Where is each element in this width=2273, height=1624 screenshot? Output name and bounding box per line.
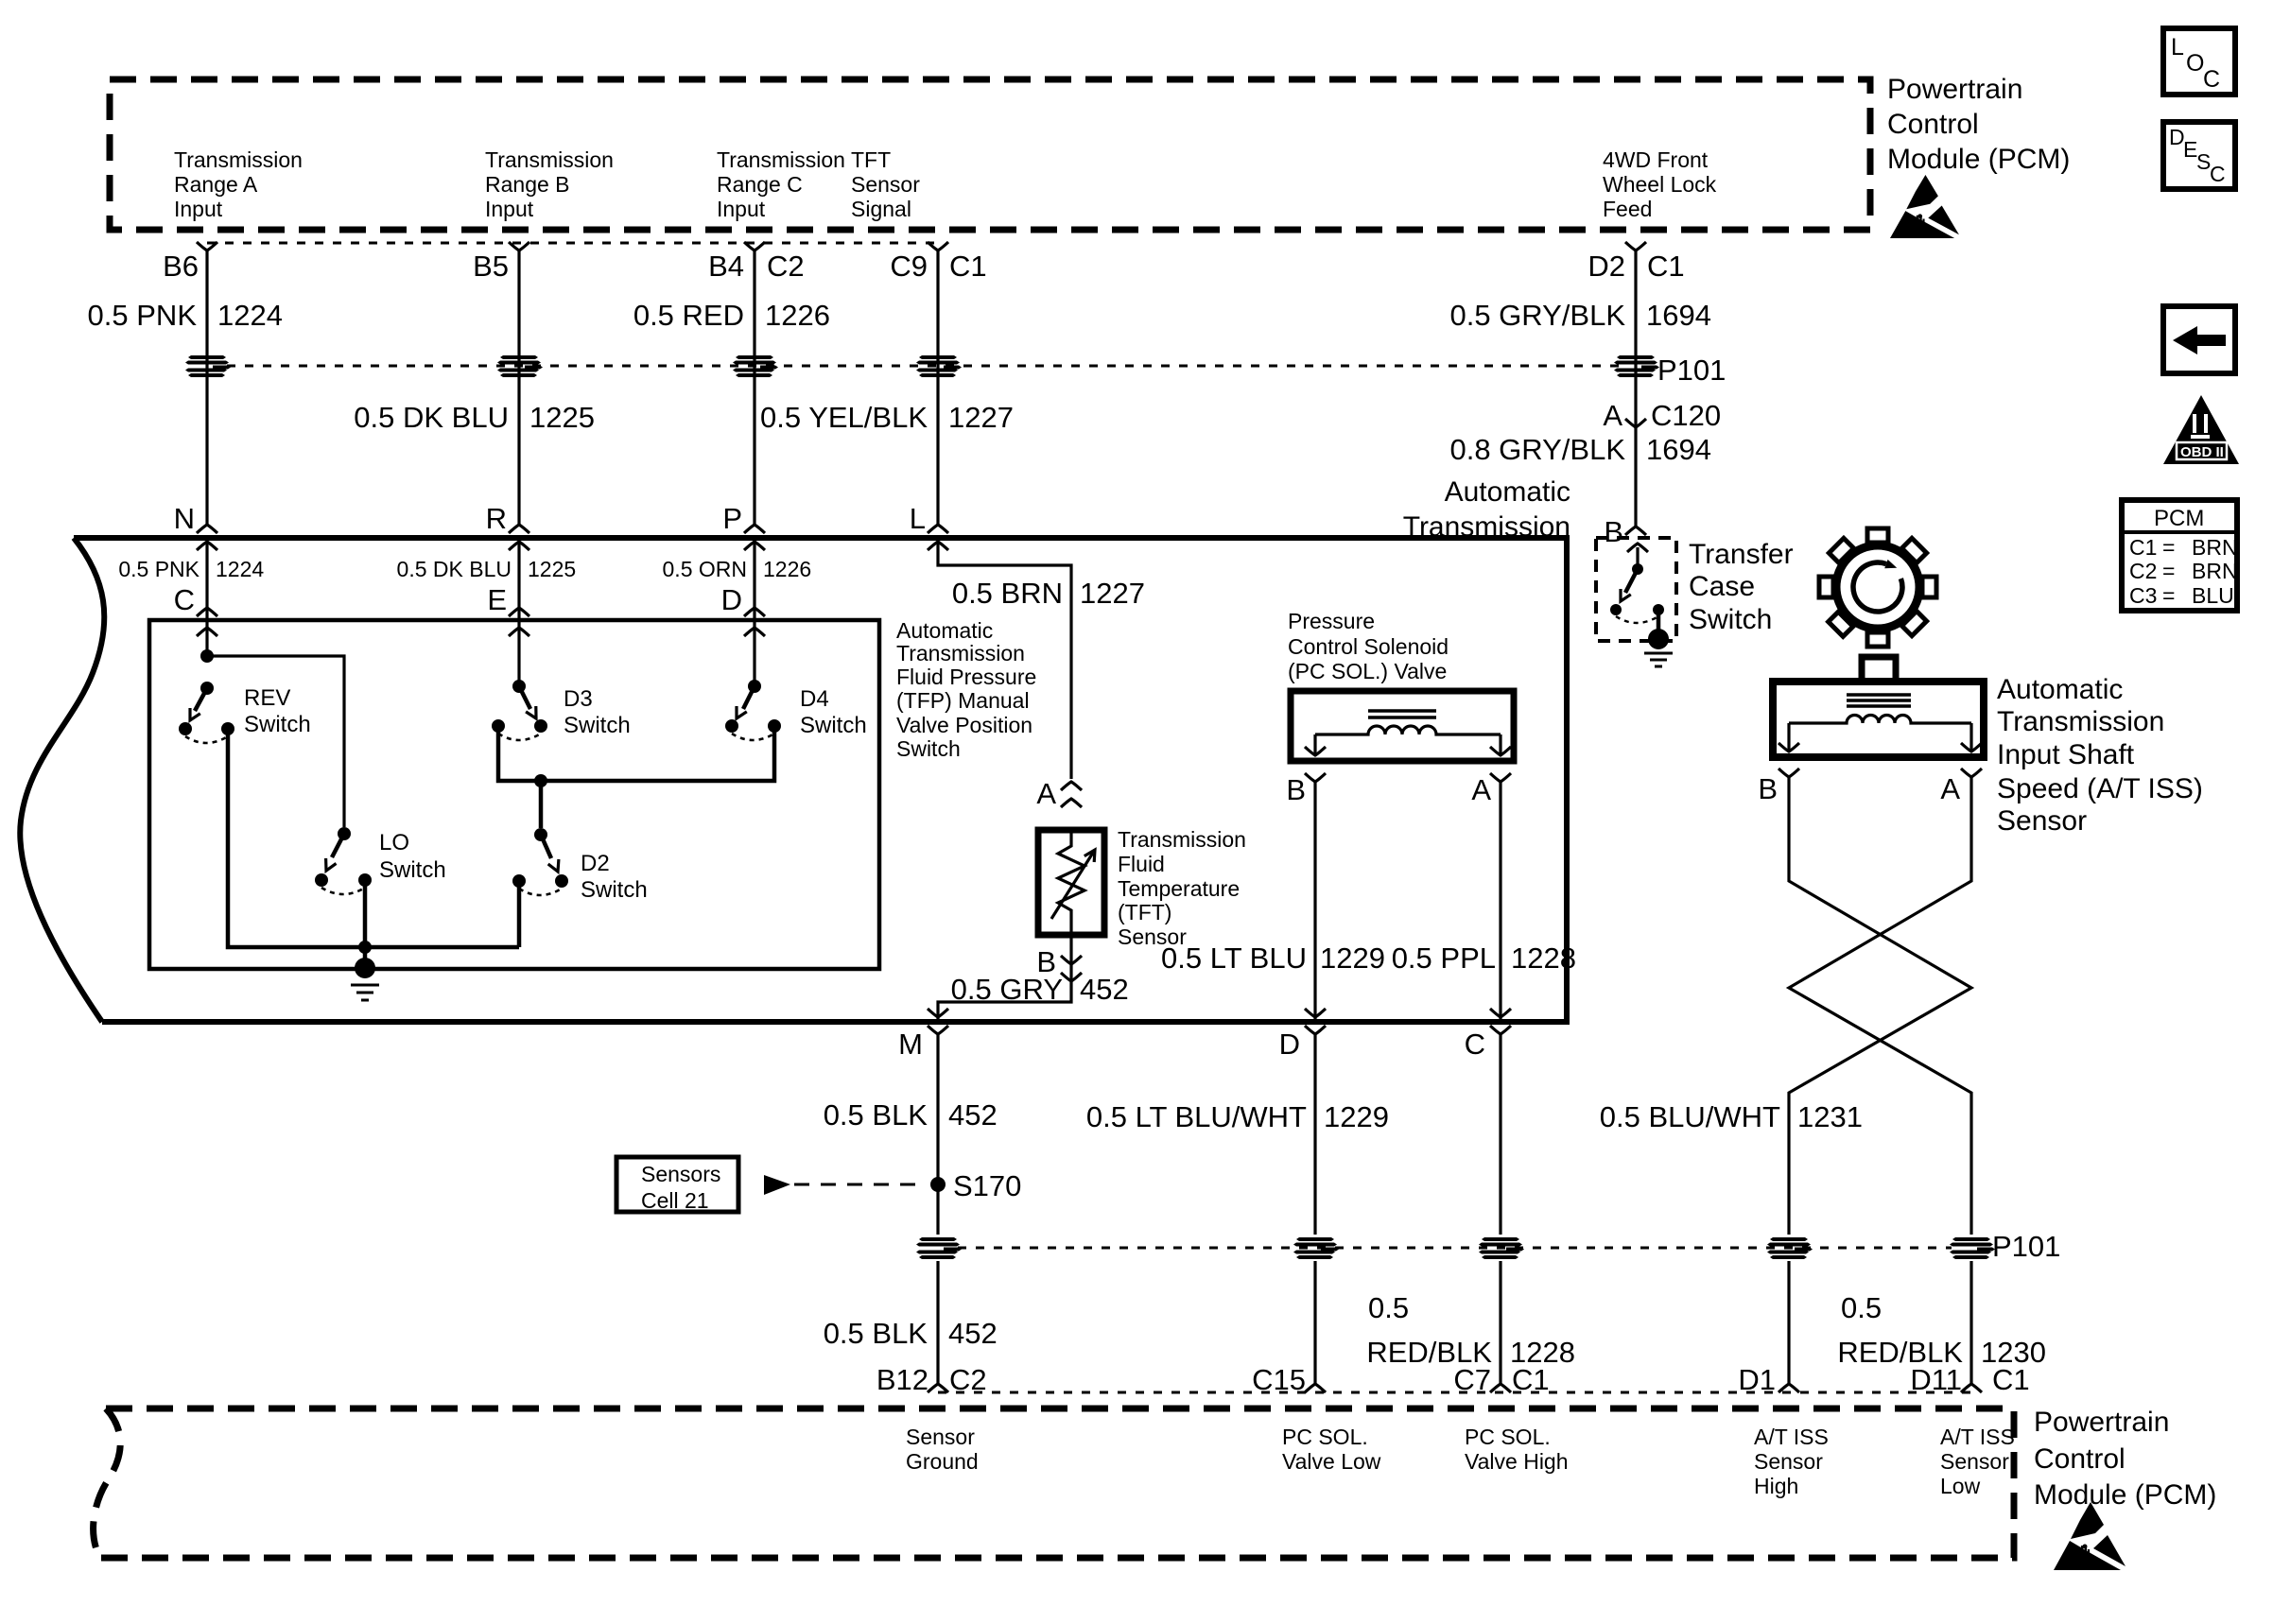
- wire label 0.5 BLK 452 upper: [824, 1098, 998, 1132]
- svg-text:B6: B6: [163, 250, 199, 283]
- pin B4/C2 fork: [744, 242, 765, 251]
- harness dashed line through in-line connectors P101: [227, 365, 1619, 368]
- svg-text:C: C: [2203, 66, 2220, 93]
- svg-text:Low: Low: [1940, 1474, 1981, 1498]
- svg-text:0.5 LT BLU: 0.5 LT BLU: [1161, 942, 1307, 975]
- svg-text:C1: C1: [1647, 250, 1685, 283]
- svg-text:1225: 1225: [528, 557, 576, 581]
- pin L fork and label: [910, 502, 948, 535]
- svg-text:452: 452: [948, 1317, 998, 1350]
- pin D2/C1 fork: [1625, 242, 1646, 251]
- connector label P101 bottom: [1992, 1230, 2060, 1263]
- in-line connector on wire B6: [185, 355, 231, 377]
- svg-text:C9: C9: [890, 250, 928, 283]
- wire N inside to C: [197, 538, 217, 620]
- label Transfer Case Switch: [1689, 539, 1794, 635]
- svg-text:B5: B5: [473, 250, 509, 283]
- pin D2 C1 labels: [1588, 250, 1684, 283]
- pin C9/C1 fork: [928, 242, 948, 251]
- svg-text:4WD Front: 4WD Front: [1603, 147, 1709, 172]
- wire B6 to connector P101: [205, 251, 208, 525]
- wire D to C15: [1313, 1034, 1316, 1384]
- svg-text:Signal: Signal: [851, 197, 911, 221]
- ground at TFP switch: [351, 958, 379, 1000]
- svg-text:A/T ISS: A/T ISS: [1940, 1425, 2015, 1449]
- svg-text:Temperature: Temperature: [1118, 876, 1240, 901]
- connector label P101: [1657, 354, 1726, 387]
- svg-text:0.5 PNK: 0.5 PNK: [118, 557, 200, 581]
- svg-text:Speed (A/T ISS): Speed (A/T ISS): [1997, 773, 2203, 804]
- svg-text:452: 452: [1080, 973, 1129, 1006]
- pin D11/C1 fork and label: [1910, 1363, 2029, 1396]
- svg-text:Range C: Range C: [717, 172, 803, 197]
- wire D entry into TFP switch: [744, 620, 765, 686]
- svg-text:C1: C1: [2129, 535, 2157, 560]
- svg-text:1226: 1226: [763, 557, 811, 581]
- pin B transfer case fork and label: [1604, 515, 1646, 548]
- svg-text:L: L: [2171, 34, 2184, 60]
- svg-text:0.5 YEL/BLK: 0.5 YEL/BLK: [760, 401, 928, 434]
- svg-text:1694: 1694: [1646, 433, 1711, 466]
- label PC SOL. Valve High: [1465, 1425, 1569, 1474]
- svg-text:Range A: Range A: [174, 172, 258, 197]
- in-line connector on wire D: [1293, 1237, 1339, 1259]
- svg-text:1229: 1229: [1324, 1100, 1389, 1133]
- wire C9 down: [936, 251, 939, 525]
- svg-text:0.5: 0.5: [1368, 1291, 1409, 1324]
- svg-text:Switch: Switch: [564, 713, 631, 738]
- svg-text:Transmission: Transmission: [174, 147, 303, 172]
- svg-text:D4: D4: [800, 686, 829, 712]
- svg-text:N: N: [174, 502, 195, 535]
- svg-text:OBD II: OBD II: [2180, 444, 2224, 460]
- exit pin C of AT box: [1465, 1026, 1511, 1061]
- svg-text:(TFT): (TFT): [1118, 900, 1171, 924]
- twisted pair crossover wires: [1789, 777, 1971, 1384]
- svg-text:Valve Low: Valve Low: [1282, 1449, 1381, 1474]
- svg-text:B: B: [1286, 773, 1306, 806]
- wire D3 left contact to D2 bus: [498, 726, 774, 781]
- in-line connector on ISS low wire with P101 label: [1950, 1237, 1995, 1259]
- svg-text:Sensor: Sensor: [1754, 1449, 1823, 1474]
- svg-text:=: =: [2162, 583, 2175, 608]
- svg-text:S170: S170: [953, 1169, 1021, 1202]
- DESC legend box: [2163, 122, 2235, 189]
- svg-text:0.5 BLU/WHT: 0.5 BLU/WHT: [1600, 1100, 1780, 1133]
- svg-text:M: M: [898, 1028, 923, 1061]
- svg-text:REV: REV: [244, 685, 290, 711]
- svg-text:Transmission: Transmission: [1997, 706, 2164, 737]
- wire LO right contact to ground junction: [363, 880, 368, 947]
- PCM top module box (Powertrain Control Module): [110, 79, 1870, 230]
- in-line connector on wire B4: [733, 355, 778, 377]
- wire label 0.5 GRY/BLK 1694: [1449, 299, 1711, 332]
- ESD symbol top: [1890, 175, 1959, 238]
- svg-text:Range B: Range B: [485, 172, 570, 197]
- svg-text:R: R: [486, 502, 507, 535]
- pin C fork and label: [174, 583, 217, 616]
- label: Transmission Range B Input: [485, 147, 614, 221]
- svg-text:Module (PCM): Module (PCM): [2034, 1479, 2216, 1511]
- D2 switch: [512, 828, 568, 895]
- svg-text:PCM: PCM: [2154, 506, 2204, 531]
- svg-text:BLU: BLU: [2192, 583, 2234, 608]
- svg-text:C3: C3: [2129, 583, 2157, 608]
- pin E fork and label: [487, 583, 529, 616]
- wire label 0.5 DK BLU 1225: [354, 401, 595, 434]
- svg-text:D2: D2: [581, 851, 610, 876]
- svg-text:C2: C2: [767, 250, 805, 283]
- svg-text:0.5 GRY/BLK: 0.5 GRY/BLK: [1449, 299, 1625, 332]
- svg-text:Input: Input: [717, 197, 766, 221]
- callout arrow to S170: [764, 1175, 925, 1195]
- pin C15 fork and label: [1252, 1363, 1326, 1396]
- wire label 0.5 ORN 1226 inside: [663, 557, 812, 581]
- LO switch: [315, 827, 372, 894]
- svg-text:Automatic: Automatic: [1445, 476, 1570, 508]
- D3 switch: [492, 680, 547, 740]
- back arrow legend box: [2163, 306, 2235, 373]
- svg-text:Transmission: Transmission: [1118, 827, 1246, 852]
- svg-text:A: A: [1940, 772, 1960, 805]
- svg-text:Switch: Switch: [581, 877, 648, 903]
- pin P fork and label: [722, 502, 765, 535]
- svg-text:0.5 BLK: 0.5 BLK: [824, 1317, 928, 1350]
- svg-text:Feed: Feed: [1603, 197, 1652, 221]
- label Automatic Transmission Fluid Pressure (TFP) Manual Valve Position Switch: [896, 618, 1036, 761]
- transfer case switch internals: [1610, 544, 1664, 631]
- connector C120 arrow on 4WD wire: [1603, 399, 1721, 432]
- wire junction to D2 pivot: [539, 781, 544, 828]
- svg-text:P101: P101: [1657, 354, 1726, 387]
- svg-text:LO: LO: [379, 830, 409, 855]
- pin B of TFT sensor (double arrow): [1036, 945, 1082, 981]
- wire label 0.5 PNK 1224: [88, 299, 283, 332]
- label LO Switch: [379, 830, 446, 883]
- label Transmission Fluid Temperature (TFT) Sensor: [1118, 827, 1246, 949]
- wire R inside to E: [509, 538, 529, 620]
- wire label 0.5 DK BLU 1225 inside: [397, 557, 577, 581]
- wire D2 down: [1634, 251, 1637, 527]
- Automatic Transmission component box with wavy left edge: [20, 538, 1567, 1022]
- pin B6 label: [163, 250, 199, 283]
- svg-text:L: L: [910, 502, 926, 535]
- svg-text:C: C: [1465, 1028, 1485, 1061]
- A/T ISS sensor connector nub: [1862, 657, 1896, 683]
- D4 switch: [725, 680, 781, 740]
- TFT sensor box: [1038, 830, 1104, 935]
- wire label 0.5 PNK 1224 inside: [118, 557, 264, 581]
- svg-text:Sensor: Sensor: [851, 172, 920, 197]
- node: junction C to REV feed: [200, 649, 214, 663]
- svg-text:BRN: BRN: [2192, 535, 2238, 560]
- svg-text:Input: Input: [485, 197, 534, 221]
- svg-text:Transmission: Transmission: [896, 641, 1025, 665]
- svg-text:Sensor: Sensor: [1940, 1449, 2009, 1474]
- node: junction on D2 bus: [534, 774, 547, 787]
- wire junction to LO switch feed: [207, 656, 344, 827]
- svg-text:Control: Control: [2034, 1443, 2126, 1475]
- ISS pickup coil core: [1847, 695, 1911, 706]
- ground at transfer case switch: [1644, 629, 1673, 666]
- A/T ISS sensor box: [1773, 682, 1984, 757]
- label Pressure Control Solenoid (PC SOL.) Valve: [1288, 609, 1449, 683]
- wire C to C7: [1499, 1034, 1501, 1384]
- pin D fork and label: [721, 583, 765, 616]
- LOC legend box: [2163, 28, 2235, 95]
- wire label 0.5 BLK 452 lower: [824, 1317, 998, 1350]
- wire label 0.5 LT BLU 1229: [1161, 942, 1385, 975]
- svg-text:C: C: [174, 583, 195, 616]
- ISS pickup coil: [1778, 716, 1982, 752]
- svg-text:Fluid Pressure: Fluid Pressure: [896, 665, 1036, 689]
- PC SOL solenoid core: [1368, 711, 1436, 717]
- wire B4 down: [753, 251, 755, 525]
- pin C7/C1 fork and label: [1453, 1363, 1549, 1396]
- node S170: [930, 1169, 1021, 1202]
- svg-text:Switch: Switch: [244, 712, 311, 737]
- exit pin M of AT box: [898, 1026, 948, 1061]
- svg-text:C120: C120: [1651, 399, 1721, 432]
- wire E entry into TFP switch: [509, 620, 529, 686]
- svg-text:BRN: BRN: [2192, 559, 2238, 583]
- svg-text:B: B: [1758, 772, 1778, 805]
- svg-text:(PC SOL.) Valve: (PC SOL.) Valve: [1288, 659, 1447, 683]
- pin A of PC SOL valve: [1471, 773, 1511, 806]
- svg-text:Transmission: Transmission: [717, 147, 845, 172]
- svg-text:1227: 1227: [1080, 577, 1145, 610]
- node: ground bus junction: [358, 941, 372, 954]
- wire PC SOL A to C exit: [1490, 782, 1511, 1022]
- pin C9 C1 labels: [890, 250, 986, 283]
- svg-text:C1: C1: [949, 250, 987, 283]
- exit pin D of AT box: [1279, 1026, 1326, 1061]
- wire M to B12: [936, 1034, 939, 1384]
- svg-text:0.5 PPL: 0.5 PPL: [1392, 942, 1496, 975]
- harness dashed line through bottom connectors P101: [958, 1247, 1952, 1250]
- wire P inside to D: [744, 538, 765, 620]
- pin B6 fork: [197, 242, 217, 251]
- svg-text:0.5 DK BLU: 0.5 DK BLU: [354, 401, 509, 434]
- svg-text:1224: 1224: [217, 299, 283, 332]
- svg-text:P: P: [722, 502, 742, 535]
- pin R fork and label: [486, 502, 529, 535]
- svg-text:Sensor: Sensor: [1997, 805, 2087, 837]
- svg-text:Control Solenoid: Control Solenoid: [1288, 634, 1449, 659]
- label: Transmission Range C Input: [717, 147, 845, 221]
- label Sensor Ground: [906, 1425, 979, 1474]
- svg-text:PC SOL.: PC SOL.: [1465, 1425, 1551, 1449]
- svg-text:Automatic: Automatic: [896, 618, 993, 643]
- label REV Switch: [244, 685, 311, 737]
- svg-text:1224: 1224: [216, 557, 264, 581]
- svg-text:(TFP) Manual: (TFP) Manual: [896, 688, 1030, 713]
- in-line connector on wire C: [1479, 1237, 1524, 1259]
- label: 4WD Front Wheel Lock Feed: [1603, 147, 1717, 221]
- svg-text:D11: D11: [1910, 1363, 1962, 1396]
- svg-text:1228: 1228: [1511, 942, 1576, 975]
- label A/T ISS Sensor High: [1754, 1425, 1829, 1498]
- OBD II symbol: [2163, 395, 2239, 464]
- label: TFT Sensor Signal: [851, 147, 920, 221]
- pin B5 fork: [509, 242, 529, 251]
- connector face dashed line below PCM: [207, 242, 938, 245]
- svg-text:1231: 1231: [1797, 1100, 1863, 1133]
- svg-text:Cell 21: Cell 21: [641, 1188, 709, 1213]
- wire ground tap: [363, 947, 368, 962]
- REV switch: [179, 682, 234, 743]
- exit M arrow: [928, 1009, 948, 1017]
- in-line connector on wire C9: [916, 355, 962, 377]
- wire PC SOL B to D exit: [1305, 782, 1326, 1022]
- label Automatic Transmission Input Shaft Speed (A/T ISS) Sensor: [1997, 674, 2203, 837]
- svg-text:Valve Position: Valve Position: [896, 713, 1032, 737]
- pin D1 fork and label: [1738, 1363, 1799, 1396]
- pin B of PC SOL valve: [1286, 773, 1326, 806]
- svg-text:A: A: [1036, 777, 1056, 810]
- svg-text:=: =: [2162, 535, 2175, 560]
- svg-text:B: B: [1604, 515, 1623, 548]
- wire D2 left contact to ground bus: [517, 881, 522, 947]
- svg-text:D2: D2: [1588, 250, 1625, 283]
- svg-text:1227: 1227: [948, 401, 1014, 434]
- svg-text:Ground: Ground: [906, 1449, 979, 1474]
- label Powertrain Control Module (PCM) bottom: [2034, 1407, 2216, 1511]
- PCM connector color legend table: [2122, 500, 2238, 611]
- svg-text:Switch: Switch: [1689, 604, 1772, 635]
- svg-text:Valve High: Valve High: [1465, 1449, 1569, 1474]
- svg-text:Switch: Switch: [379, 857, 446, 883]
- svg-text:0.5 PNK: 0.5 PNK: [88, 299, 198, 332]
- wire label 0.5 GRY 452: [951, 973, 1129, 1006]
- svg-text:1226: 1226: [765, 299, 830, 332]
- label Automatic Transmission (box title): [1403, 476, 1570, 543]
- pin B4 C2 labels: [708, 250, 805, 283]
- svg-text:0.5 ORN: 0.5 ORN: [663, 557, 747, 581]
- svg-text:0.5 RED: 0.5 RED: [633, 299, 744, 332]
- wire label 0.5 BLU/WHT 1231: [1600, 1100, 1863, 1133]
- svg-text:Automatic: Automatic: [1997, 674, 2123, 705]
- wire label 0.5 LT BLU/WHT 1229: [1086, 1100, 1389, 1133]
- PCM bottom module box with wavy left edge: [94, 1408, 2014, 1558]
- svg-text:Switch: Switch: [896, 736, 961, 761]
- Sensors Cell 21 callout box: [616, 1157, 738, 1213]
- svg-text:0.5 GRY: 0.5 GRY: [951, 973, 1063, 1006]
- pin B12/C2 fork and label: [876, 1363, 987, 1396]
- svg-text:D: D: [721, 583, 742, 616]
- wire C entry into TFP switch: [197, 620, 217, 656]
- label D2 Switch: [581, 851, 648, 903]
- svg-text:Control: Control: [1887, 109, 1979, 140]
- svg-text:Module (PCM): Module (PCM): [1887, 144, 2070, 175]
- svg-text:Pressure: Pressure: [1288, 609, 1375, 633]
- svg-text:B12: B12: [876, 1363, 928, 1396]
- svg-text:Fluid: Fluid: [1118, 852, 1165, 876]
- svg-text:Powertrain: Powertrain: [2034, 1407, 2169, 1438]
- in-line connector on wire M: [916, 1237, 962, 1259]
- wire label 0.5 RED/BLK 1228: [1366, 1291, 1575, 1369]
- svg-text:0.5: 0.5: [1841, 1291, 1882, 1324]
- svg-text:C: C: [2210, 162, 2226, 186]
- pin A of TFT sensor (double arrow): [1036, 777, 1082, 810]
- wire label 0.5 RED/BLK 1230: [1837, 1291, 2046, 1369]
- wire REV right contact to ground bus: [228, 729, 519, 947]
- wire label 0.5 YEL/BLK 1227: [760, 401, 1014, 434]
- svg-text:452: 452: [948, 1098, 998, 1132]
- svg-text:C2: C2: [2129, 559, 2157, 583]
- svg-text:C1: C1: [1992, 1363, 2030, 1396]
- svg-text:A: A: [1471, 773, 1491, 806]
- svg-text:A: A: [1603, 399, 1622, 432]
- svg-text:E: E: [487, 583, 507, 616]
- pin B5 label: [473, 250, 509, 283]
- wire TFT B down: [938, 935, 1071, 1022]
- reluctor gear icon: [1795, 504, 1961, 670]
- wire B5 down: [517, 251, 520, 525]
- wire label 0.8 GRY/BLK 1694: [1449, 433, 1711, 466]
- label PC SOL. Valve Low: [1282, 1425, 1381, 1474]
- label A/T ISS Sensor Low: [1940, 1425, 2015, 1498]
- svg-text:Sensors: Sensors: [641, 1162, 720, 1186]
- label: Transmission Range A Input: [174, 147, 303, 221]
- svg-text:Case: Case: [1689, 571, 1755, 602]
- in-line connector on wire D2 with P101 label: [1614, 355, 1659, 377]
- svg-text:A/T ISS: A/T ISS: [1754, 1425, 1829, 1449]
- svg-text:Sensor: Sensor: [906, 1425, 975, 1449]
- svg-text:Transfer: Transfer: [1689, 539, 1794, 570]
- svg-text:D: D: [1279, 1028, 1300, 1061]
- svg-text:0.5 LT BLU/WHT: 0.5 LT BLU/WHT: [1086, 1100, 1307, 1133]
- connector face dashed line above bottom PCM: [938, 1391, 1971, 1394]
- wire L inside jog to TFT: [928, 538, 1071, 779]
- pin B of ISS sensor: [1758, 769, 1799, 805]
- svg-text:P101: P101: [1992, 1230, 2060, 1263]
- in-line connector on ISS high wire: [1767, 1237, 1813, 1259]
- label D4 Switch: [800, 686, 867, 738]
- in-line connector on wire B5: [497, 355, 543, 377]
- svg-text:B4: B4: [708, 250, 744, 283]
- svg-text:1229: 1229: [1320, 942, 1385, 975]
- svg-text:D3: D3: [564, 686, 593, 712]
- svg-text:=: =: [2162, 559, 2175, 583]
- pin A of ISS sensor: [1940, 769, 1982, 805]
- svg-text:1694: 1694: [1646, 299, 1711, 332]
- svg-text:TFT: TFT: [851, 147, 891, 172]
- svg-text:0.5 BRN: 0.5 BRN: [952, 577, 1063, 610]
- svg-text:Switch: Switch: [800, 713, 867, 738]
- svg-text:1225: 1225: [529, 401, 595, 434]
- svg-text:Transmission: Transmission: [485, 147, 614, 172]
- Transfer Case Switch dashed box: [1596, 538, 1676, 641]
- PC SOL valve box: [1291, 691, 1514, 761]
- wire label 0.5 BRN 1227: [952, 577, 1145, 610]
- pin N fork and label: [174, 502, 217, 535]
- label D3 Switch: [564, 686, 631, 738]
- label: Powertrain Control Module (PCM) top right: [1887, 74, 2070, 175]
- TFP manual valve position switch box: [149, 620, 879, 969]
- svg-text:0.5 DK BLU: 0.5 DK BLU: [397, 557, 512, 581]
- wire label 0.5 PPL 1228: [1392, 942, 1576, 975]
- svg-text:Input Shaft: Input Shaft: [1997, 739, 2135, 770]
- svg-text:High: High: [1754, 1474, 1798, 1498]
- svg-text:O: O: [2186, 50, 2204, 77]
- svg-text:PC SOL.: PC SOL.: [1282, 1425, 1368, 1449]
- ESD symbol bottom: [2054, 1502, 2126, 1570]
- svg-text:0.8 GRY/BLK: 0.8 GRY/BLK: [1449, 433, 1625, 466]
- svg-text:Powertrain: Powertrain: [1887, 74, 2022, 105]
- TFT thermistor element: [1051, 830, 1095, 935]
- svg-text:Wheel Lock: Wheel Lock: [1603, 172, 1717, 197]
